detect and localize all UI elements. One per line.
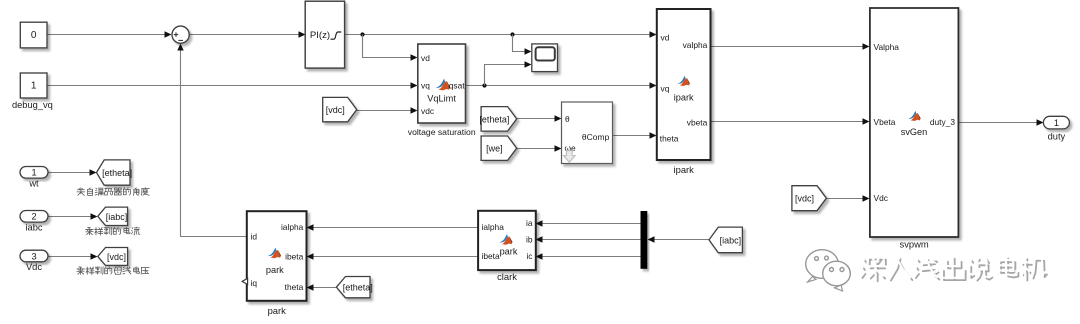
svg-text:theta: theta xyxy=(660,133,679,143)
svg-text:duty_3: duty_3 xyxy=(930,117,955,127)
svg-text:clark: clark xyxy=(497,271,517,282)
svg-text:[etheta]: [etheta] xyxy=(343,283,373,293)
svg-text:ibeta: ibeta xyxy=(285,251,304,261)
svg-text:1: 1 xyxy=(31,80,37,91)
svg-text:park: park xyxy=(268,305,287,316)
svg-text:1: 1 xyxy=(31,168,36,178)
svg-text:θComp: θComp xyxy=(582,132,610,142)
svg-text:voltage saturation: voltage saturation xyxy=(408,127,476,137)
svg-text:3: 3 xyxy=(31,251,36,261)
svg-text:1: 1 xyxy=(1054,118,1059,128)
svg-text:ipark: ipark xyxy=(674,164,695,175)
svg-text:vd: vd xyxy=(661,32,670,42)
svg-text:qsat: qsat xyxy=(449,81,466,91)
svg-text:VqLimt: VqLimt xyxy=(427,93,456,103)
svg-text:Vdc: Vdc xyxy=(26,262,42,272)
svg-text:iabc: iabc xyxy=(25,222,42,232)
svg-text:park: park xyxy=(500,246,518,256)
svg-text:Vdc: Vdc xyxy=(874,193,888,203)
svg-text:Vbeta: Vbeta xyxy=(874,117,896,127)
svg-text:ia: ia xyxy=(526,218,533,228)
svg-text:duty: duty xyxy=(1048,132,1066,142)
svg-text:vbeta: vbeta xyxy=(687,118,708,128)
svg-text:[we]: [we] xyxy=(486,144,503,154)
svg-text:ibeta: ibeta xyxy=(482,251,501,261)
svg-text:ialpha: ialpha xyxy=(281,222,304,232)
svg-text:theta: theta xyxy=(285,282,304,292)
svg-text:[vdc]: [vdc] xyxy=(795,194,814,204)
svg-text:vq: vq xyxy=(661,83,670,93)
svg-text:θ: θ xyxy=(565,114,570,124)
svg-text:ib: ib xyxy=(526,235,533,245)
svg-text:[iabc]: [iabc] xyxy=(106,212,128,222)
svg-text:vd: vd xyxy=(421,53,430,63)
svg-text:[etheta]: [etheta] xyxy=(479,114,509,124)
svg-text:0: 0 xyxy=(31,30,37,41)
svg-text:[iabc]: [iabc] xyxy=(720,235,742,245)
svg-text:2: 2 xyxy=(31,212,36,222)
svg-text:debug_vq: debug_vq xyxy=(12,100,53,110)
svg-text:ic: ic xyxy=(526,251,532,261)
svg-text:vdc: vdc xyxy=(421,106,434,116)
svg-text:[vdc]: [vdc] xyxy=(107,252,126,262)
svg-text:[etheta]: [etheta] xyxy=(102,168,132,178)
svg-text:park: park xyxy=(266,265,284,275)
svg-text:iq: iq xyxy=(251,278,258,288)
svg-text:vq: vq xyxy=(421,81,430,91)
svg-text:Valpha: Valpha xyxy=(874,42,900,52)
svg-text:ipark: ipark xyxy=(674,93,694,103)
svg-text:ialpha: ialpha xyxy=(482,222,505,232)
svg-text:wt: wt xyxy=(28,179,39,189)
svg-text:valpha: valpha xyxy=(683,40,708,50)
svg-text:PI(z): PI(z) xyxy=(310,30,330,41)
svg-text:id: id xyxy=(251,231,258,241)
svg-text:svGen: svGen xyxy=(901,127,928,137)
svg-text:svpwm: svpwm xyxy=(900,239,929,250)
svg-text:[vdc]: [vdc] xyxy=(326,105,345,115)
